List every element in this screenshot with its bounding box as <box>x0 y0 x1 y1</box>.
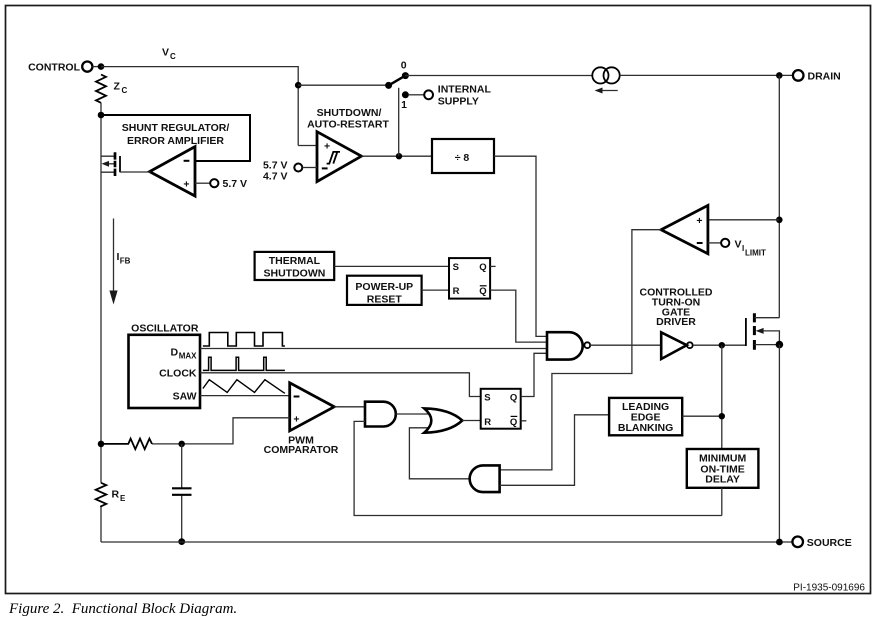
box power-up reset <box>347 276 422 306</box>
svg-text:S: S <box>484 392 490 403</box>
wire latch2 Q to NAND input 4 <box>521 353 547 396</box>
label VC <box>162 47 176 62</box>
wire divider output to NAND input 1 <box>494 156 547 336</box>
wire PWM output to AND1 <box>334 406 365 408</box>
svg-text:AUTO-RESTART: AUTO-RESTART <box>307 119 389 131</box>
svg-text:E: E <box>120 494 126 503</box>
wire latch1 Q stub <box>490 265 496 267</box>
svg-text:DRIVER: DRIVER <box>656 316 696 328</box>
svg-text:V: V <box>162 47 169 59</box>
wire driver output to gate <box>693 344 746 346</box>
resistor ZC <box>96 75 128 103</box>
wire OR output to latch2 R <box>462 420 480 422</box>
wire drain vertical rail <box>778 75 780 317</box>
current source <box>592 67 619 93</box>
gate AND1 <box>365 402 396 427</box>
wire switch pole 1 to internal supply <box>409 94 424 96</box>
svg-text:5.7 V: 5.7 V <box>223 178 248 190</box>
wire gate to op-amp output <box>120 171 151 173</box>
svg-text:Q: Q <box>479 262 486 273</box>
svg-text:Z: Z <box>114 81 121 93</box>
terminal internal supply <box>424 83 491 107</box>
node capacitor bottom <box>178 538 185 545</box>
waveform CLOCK pulses <box>203 357 285 370</box>
latch U2 SR <box>481 389 521 429</box>
wire switch common <box>298 84 388 86</box>
wire latch1 Qbar to NAND input 2 <box>490 290 547 342</box>
node MOSFET source <box>776 341 784 349</box>
svg-text:LIMIT: LIMIT <box>745 248 766 257</box>
wire switch stem to divider input node <box>398 88 400 156</box>
svg-text:DELAY: DELAY <box>705 474 740 486</box>
svg-text:+: + <box>293 413 299 425</box>
wire op-amp plus input <box>195 182 210 184</box>
wire gate node to leading edge blanking <box>721 345 723 449</box>
node LEB junction <box>719 413 725 419</box>
wire leading edge blanking to AND2 input 2 <box>500 415 609 486</box>
wire DMAX to NAND input 3 <box>200 348 547 350</box>
svg-text:SAW: SAW <box>173 390 197 402</box>
terminal VILIMIT <box>721 238 766 257</box>
svg-text:S: S <box>453 262 459 273</box>
svg-text:OSCILLATOR: OSCILLATOR <box>131 323 199 335</box>
node RE top <box>98 441 105 448</box>
wire shutdown comparator plus input <box>298 145 317 147</box>
node divider input <box>396 153 402 159</box>
svg-text:CLOCK: CLOCK <box>159 367 197 379</box>
wire bottom source rail <box>101 541 792 543</box>
terminal 5.7V/4.7V threshold <box>263 160 317 183</box>
wire CLOCK to latch2 S <box>200 373 481 397</box>
svg-text:CONTROL: CONTROL <box>28 62 80 74</box>
wire min delay to AND1 input 2 <box>354 421 722 515</box>
wire main left rail <box>100 103 102 542</box>
wire current source to DRAIN <box>620 74 793 76</box>
wire thermal to latch S <box>334 265 449 267</box>
waveform SAW sawtooth <box>203 380 285 394</box>
wire shutdown output to divider <box>361 155 432 157</box>
svg-text:FB: FB <box>120 257 131 266</box>
node control <box>98 63 105 70</box>
svg-text:INTERNAL: INTERNAL <box>438 83 492 95</box>
wire NAND output to driver <box>590 344 661 346</box>
wire LEB output to gate node <box>682 415 722 417</box>
svg-text:MAX: MAX <box>179 351 197 360</box>
resistor RE <box>96 483 126 507</box>
svg-text:SUPPLY: SUPPLY <box>438 95 479 107</box>
node shunt box top <box>98 112 105 119</box>
svg-text:SOURCE: SOURCE <box>807 537 852 549</box>
box shunt regulator / error amplifier <box>101 115 250 161</box>
svg-text:4.7 V: 4.7 V <box>263 171 288 183</box>
oscillator box <box>129 323 201 408</box>
wire top rail to current source <box>405 75 592 77</box>
svg-text:R: R <box>484 417 491 428</box>
box minimum on-time delay <box>687 449 759 488</box>
svg-text:1: 1 <box>401 99 407 111</box>
svg-text:POWER-UP: POWER-UP <box>355 281 413 293</box>
svg-text:D: D <box>171 346 179 358</box>
terminal 5.7V reference <box>210 178 247 190</box>
svg-text:C: C <box>170 52 176 61</box>
waveform DMAX square wave <box>203 333 285 347</box>
svg-text:+: + <box>696 215 702 227</box>
svg-text:SHUNT REGULATOR/: SHUNT REGULATOR/ <box>122 122 230 134</box>
arrow IFB <box>109 219 130 305</box>
svg-text:÷ 8: ÷ 8 <box>455 152 470 164</box>
wire CONTROL to node <box>92 66 101 68</box>
terminal SOURCE <box>792 537 851 550</box>
box thermal shutdown <box>255 252 335 280</box>
svg-text:C: C <box>122 86 128 95</box>
wire min delay output <box>721 488 723 516</box>
gate AND2 reversed <box>470 465 500 492</box>
wire VC rail <box>101 67 298 146</box>
wire AND2 output to OR input 2 <box>409 428 470 479</box>
wire source vertical rail <box>778 345 780 542</box>
svg-text:Q: Q <box>510 417 517 428</box>
svg-text:R: R <box>453 286 460 297</box>
svg-text:Figure 2. Functional Block Di: Figure 2. Functional Block Diagram. <box>8 601 237 617</box>
wire current limit comparator plus input <box>708 219 779 221</box>
node VC branch <box>295 82 302 89</box>
svg-text:THERMAL: THERMAL <box>269 255 321 267</box>
svg-text:+: + <box>183 179 189 191</box>
comparator PWM <box>264 383 339 456</box>
node drain branch <box>776 72 783 79</box>
terminal CONTROL <box>28 62 92 74</box>
op-amp shunt error amplifier <box>150 147 195 196</box>
wire feedback sense to PWM plus <box>152 418 290 444</box>
svg-text:RESET: RESET <box>367 293 403 305</box>
svg-text:DRAIN: DRAIN <box>808 71 841 83</box>
svg-text:SHUTDOWN/: SHUTDOWN/ <box>317 107 382 119</box>
node gate branch <box>719 342 725 348</box>
buffer controlled turn-on gate driver <box>640 286 713 359</box>
latch U1 SR <box>449 258 490 299</box>
comparator current limit <box>661 205 708 253</box>
svg-text:ERROR AMPLIFIER: ERROR AMPLIFIER <box>127 135 224 147</box>
svg-text:V: V <box>735 238 742 250</box>
transistor power MOSFET <box>746 313 780 350</box>
wire current limit output to AND <box>500 230 661 470</box>
svg-text:COMPARATOR: COMPARATOR <box>264 444 339 456</box>
wire SAW to PWM comparator <box>200 395 290 397</box>
svg-text:R: R <box>112 489 120 501</box>
transistor shunt MOSFET <box>101 152 120 176</box>
switch auto-restart <box>385 60 409 111</box>
wire latch2 Qbar stub <box>521 420 527 422</box>
comparator shutdown/auto-restart <box>307 107 389 182</box>
node current limit tap <box>776 217 783 224</box>
divider box divide-by-8 <box>432 139 494 173</box>
terminal DRAIN <box>793 70 841 82</box>
node source rail <box>776 539 783 546</box>
wire reset to latch R <box>422 289 449 291</box>
gate NAND <box>547 332 590 359</box>
svg-text:Q: Q <box>479 286 486 297</box>
svg-text:I: I <box>742 244 744 253</box>
wire AND1 output to OR <box>396 413 430 415</box>
svg-text:0: 0 <box>401 60 407 72</box>
svg-text:+: + <box>324 140 330 152</box>
gate OR1 <box>424 408 462 432</box>
wire comparator minus input <box>708 242 721 244</box>
svg-text:BLANKING: BLANKING <box>618 422 673 434</box>
svg-text:Q: Q <box>510 392 517 403</box>
node filter <box>178 441 185 448</box>
box leading edge blanking <box>609 398 682 435</box>
capacitor filter <box>172 444 192 542</box>
svg-text:SHUTDOWN: SHUTDOWN <box>263 267 325 279</box>
svg-text:PI-1935-091696: PI-1935-091696 <box>793 583 865 594</box>
resistor feedback <box>101 439 152 450</box>
